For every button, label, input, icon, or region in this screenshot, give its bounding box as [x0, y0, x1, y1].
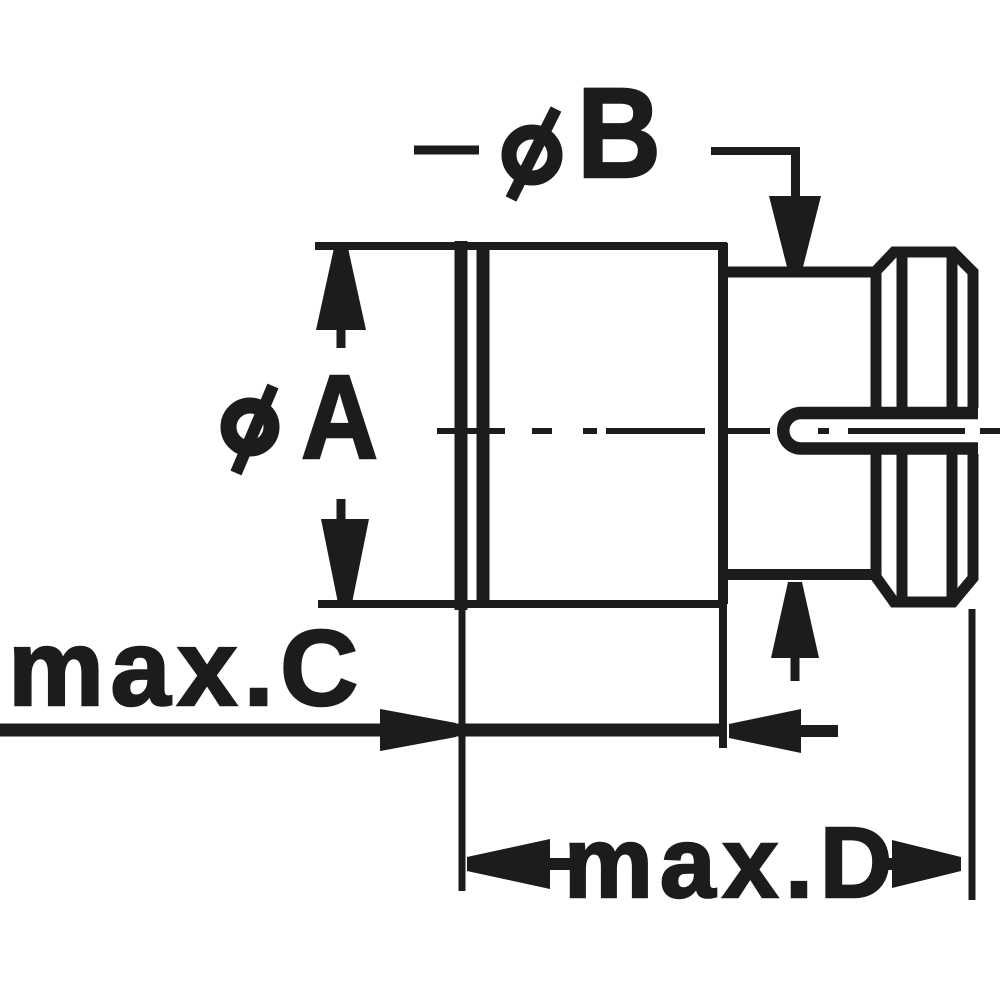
oB label leader dash	[414, 146, 479, 155]
max.D left arrow tail	[550, 858, 575, 870]
main body left inner edge	[477, 247, 490, 604]
oB leader vertical	[791, 147, 800, 203]
cap inner left line upper	[897, 252, 908, 408]
dimension extension line right (cap rear)	[969, 609, 976, 900]
cap inner right line upper	[947, 252, 958, 408]
main body right edge	[718, 243, 728, 604]
max.C right-pointing arrow	[380, 709, 456, 751]
slot with rounded left end	[783, 413, 978, 449]
cap inner right line lower	[947, 454, 958, 598]
step section bottom edge	[723, 569, 876, 580]
diameter symbol of oB	[509, 109, 556, 199]
step section top edge	[723, 267, 876, 278]
main body top edge + oA top extension line	[315, 242, 727, 250]
oB dimension up arrow	[771, 582, 819, 681]
svg-text:max.C: max.C	[8, 607, 365, 728]
svg-text:max.D: max.D	[564, 807, 899, 919]
main body bottom edge + oA bottom extension line	[318, 600, 727, 608]
main body left outer edge	[455, 241, 468, 610]
max.D right arrow tail	[878, 858, 894, 870]
oA dimension up arrow	[316, 248, 366, 348]
dimension extension line mid (rear face)	[719, 604, 727, 748]
cap outer outline lower part	[876, 454, 973, 602]
oB leader horizontal	[711, 147, 795, 155]
max.C left-pointing arrow	[729, 709, 801, 753]
max.D left-pointing arrow	[467, 839, 550, 889]
svg-text:B: B	[577, 62, 661, 205]
oA dimension down arrow	[321, 499, 369, 603]
diameter symbol of oA	[229, 386, 274, 473]
max.C arrow tail	[801, 725, 838, 737]
svg-text:A: A	[301, 351, 378, 484]
oB dimension down arrow	[769, 196, 821, 271]
dimension extension line left (front face)	[459, 604, 466, 891]
centerline	[437, 428, 1000, 434]
cap outer outline upper part	[876, 252, 973, 408]
max.D right-pointing arrow	[892, 840, 961, 888]
max.C dimension line	[0, 724, 726, 737]
cap inner left line lower	[897, 454, 908, 598]
